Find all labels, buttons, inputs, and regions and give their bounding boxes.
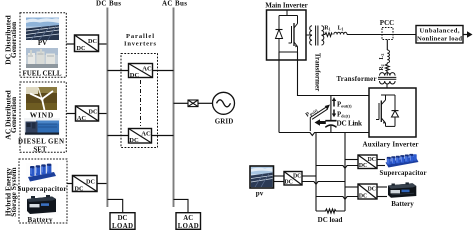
wire: DC bus to inverter 2 bbox=[107, 135, 128, 137]
wire: AC bus to breaker bbox=[174, 102, 189, 104]
wind photo bbox=[26, 87, 57, 110]
DC/DC converter U1 (PV/FC) bbox=[75, 35, 99, 52]
wires: supercap converter to supercap bbox=[377, 159, 385, 161]
DC LOAD box bbox=[110, 213, 135, 230]
svg-text:FUEL CELL: FUEL CELL bbox=[23, 70, 62, 78]
svg-text:DC load: DC load bbox=[318, 216, 343, 224]
wire: wind/diesel group to AC/DC converter bbox=[66, 113, 75, 115]
wire: PV/FC group to DC/DC converter bbox=[66, 43, 74, 45]
resistor R1 bbox=[324, 33, 332, 37]
wire: main inverter + terminal to DC link top rail bbox=[298, 52, 370, 96]
wire: PCC down bbox=[386, 40, 388, 51]
DC/DC converter (pv right) bbox=[284, 172, 302, 186]
svg-text:DC: DC bbox=[293, 174, 301, 180]
svg-text:DC: DC bbox=[359, 194, 367, 200]
transformer T2 (aux inverter) bbox=[378, 72, 396, 96]
DC link capacitor C1 bbox=[325, 96, 336, 133]
svg-text:DC: DC bbox=[368, 157, 376, 163]
fuel cell photo bbox=[26, 48, 58, 68]
svg-text:DC: DC bbox=[86, 179, 95, 186]
DC load resistor bbox=[316, 209, 345, 213]
svg-text:DC: DC bbox=[285, 180, 293, 186]
svg-text:SET: SET bbox=[33, 145, 47, 153]
DC bus (vertical gray) bbox=[106, 8, 108, 208]
wire: breaker to grid bbox=[198, 102, 213, 104]
DC/DC converter (supercap right) bbox=[358, 155, 377, 169]
battery photo (right) bbox=[387, 182, 417, 198]
svg-text:AC: AC bbox=[77, 115, 86, 122]
main inverter bridge internals bbox=[279, 10, 298, 52]
dashed group box: AC sources bbox=[20, 82, 66, 152]
svg-text:DC: DC bbox=[129, 137, 139, 144]
svg-text:DC: DC bbox=[89, 109, 98, 116]
svg-text:Supercapacitor: Supercapacitor bbox=[380, 170, 427, 177]
svg-text:pv: pv bbox=[256, 190, 264, 198]
wire: converter U2 to DC bus bbox=[99, 113, 108, 115]
grid source (circle with sine) bbox=[213, 92, 235, 114]
svg-text:PCC: PCC bbox=[380, 19, 394, 27]
main inverter box bbox=[267, 10, 307, 60]
svg-text:DC Link: DC Link bbox=[337, 120, 363, 128]
wire: converter U3 to DC bus bbox=[97, 183, 107, 185]
svg-text:DC: DC bbox=[77, 45, 86, 52]
diesel gen set photo bbox=[24, 118, 60, 136]
svg-text:Transformer: Transformer bbox=[314, 53, 322, 91]
PCC dashed box bbox=[382, 28, 393, 40]
wire: L1 to load box bbox=[347, 34, 416, 36]
svg-text:LOAD: LOAD bbox=[178, 223, 199, 230]
DC/AC inverter 2 bbox=[129, 129, 152, 145]
AC LOAD box bbox=[176, 213, 201, 230]
svg-text:L2: L2 bbox=[379, 54, 385, 60]
wire: pv converter to left rail bbox=[302, 175, 316, 177]
dashed box: parallel inverters bbox=[121, 54, 158, 148]
svg-text:DC Bus: DC Bus bbox=[96, 0, 121, 8]
label: AC Distributed Generation (rotated) bbox=[3, 89, 18, 139]
left DC rail (vertical) bbox=[315, 133, 317, 212]
DC/AC inverter 1 bbox=[129, 64, 153, 80]
wire: converter U1 to DC bus bbox=[99, 43, 108, 45]
svg-text:Transformer: Transformer bbox=[337, 76, 377, 83]
svg-text:R2: R2 bbox=[379, 64, 385, 70]
DC/DC converter U3 (storage) bbox=[73, 176, 98, 193]
svg-text:Supercapacitor: Supercapacitor bbox=[18, 185, 67, 193]
wire: storage group to DC/DC converter bbox=[67, 183, 73, 185]
inductor L1 bbox=[334, 32, 347, 34]
svg-text:Battery: Battery bbox=[28, 216, 54, 224]
dashed group box: DC sources bbox=[20, 13, 66, 78]
svg-text:Generation: Generation bbox=[9, 21, 18, 58]
DC/DC converter (battery right) bbox=[358, 184, 377, 200]
AC/DC converter U2 (wind/diesel) bbox=[76, 106, 99, 122]
svg-text:Auxilary Inverter: Auxilary Inverter bbox=[363, 141, 419, 149]
svg-text:DC: DC bbox=[88, 38, 97, 45]
svg-text:GRID: GRID bbox=[215, 118, 234, 126]
svg-text:Unbalanced,: Unbalanced, bbox=[420, 28, 460, 35]
wire: AC bus branch to AC LOAD bbox=[174, 199, 189, 212]
svg-text:DC: DC bbox=[75, 186, 84, 193]
svg-text:AC: AC bbox=[141, 131, 151, 138]
wire: inverter 2 to AC bus bbox=[152, 135, 174, 137]
wire: left rail to supercap converter (hop over right rail) bbox=[316, 166, 358, 169]
resistor R2 (vertical) bbox=[385, 63, 389, 72]
dash-dot continuation line bbox=[140, 80, 142, 126]
P_dc(t) arrow+label bbox=[332, 110, 351, 119]
right DC rail (vertical) bbox=[344, 133, 346, 212]
IGBT Q2 (aux inverter) bbox=[376, 95, 386, 126]
power flow arrow (left, into main inverter) bbox=[315, 119, 326, 126]
svg-text:AC: AC bbox=[183, 215, 193, 222]
wire: left rail to battery converter (hop over right rail) bbox=[316, 197, 358, 200]
wire: right rail to supercap converter bbox=[345, 159, 358, 161]
wires: pv photo to pv converter bbox=[274, 175, 285, 177]
wire: DC bus to inverter 1 bbox=[107, 70, 128, 72]
supercapacitor photo (right) bbox=[385, 154, 419, 168]
svg-text:Parallel: Parallel bbox=[126, 33, 154, 40]
svg-text:DC: DC bbox=[118, 215, 128, 222]
svg-text:LOAD: LOAD bbox=[112, 223, 133, 230]
wire: main inverter - terminal down bbox=[278, 52, 280, 133]
diode D1 (main inverter) bbox=[276, 30, 283, 39]
wire: right rail to battery converter bbox=[345, 186, 358, 188]
wire: inverter 1 to AC bus bbox=[153, 70, 174, 72]
inductor L2 (vertical) bbox=[387, 50, 389, 63]
svg-text:Generation: Generation bbox=[9, 96, 18, 133]
unbalanced nonlinear load box bbox=[416, 26, 463, 44]
auxiliary inverter box bbox=[369, 88, 416, 137]
svg-text:L1: L1 bbox=[338, 26, 344, 32]
supercapacitor photo (left) bbox=[26, 163, 58, 184]
aux inverter bridge internals bbox=[381, 95, 395, 126]
breaker (crossed box) bbox=[188, 100, 198, 107]
svg-text:Battery: Battery bbox=[391, 200, 414, 208]
wires: battery converter to battery bbox=[377, 186, 387, 188]
svg-text:R1: R1 bbox=[324, 26, 330, 32]
svg-text:Main Inverter: Main Inverter bbox=[265, 2, 308, 10]
svg-text:DC: DC bbox=[368, 187, 376, 193]
wire: pv converter to right rail (hop over left rail) bbox=[302, 182, 345, 185]
battery photo (left) bbox=[25, 194, 59, 215]
svg-text:Nonlinear load: Nonlinear load bbox=[417, 36, 462, 43]
AC bus (vertical gray) bbox=[173, 8, 175, 208]
PV photo bbox=[26, 18, 59, 41]
wire: DC bus branch to DC LOAD bbox=[107, 199, 122, 212]
svg-text:AC Bus: AC Bus bbox=[162, 0, 187, 8]
transformer T1 (main inverter output) bbox=[306, 26, 324, 46]
wire: bottom DC bus with hop bbox=[279, 133, 369, 136]
diode D2 (aux inverter) bbox=[392, 111, 399, 117]
P_pv(t) diagonal arrow+label bbox=[305, 105, 330, 132]
svg-text:DC: DC bbox=[130, 72, 140, 79]
svg-text:Inverters: Inverters bbox=[124, 41, 156, 48]
pv photo (right) bbox=[250, 166, 274, 188]
dashed group box: storage bbox=[19, 159, 67, 223]
svg-text:PV: PV bbox=[38, 39, 47, 47]
label: DC Distributed Generation (rotated) bbox=[3, 14, 18, 64]
arrow out of load box bbox=[463, 31, 473, 38]
svg-text:DC: DC bbox=[359, 163, 367, 169]
IGBT Q1 (main inverter) bbox=[289, 16, 298, 53]
label: Hybrid Energy Storage System (rotated) bbox=[3, 167, 18, 217]
svg-text:AC: AC bbox=[142, 66, 152, 73]
P_out(t) arrow+label bbox=[332, 97, 352, 109]
